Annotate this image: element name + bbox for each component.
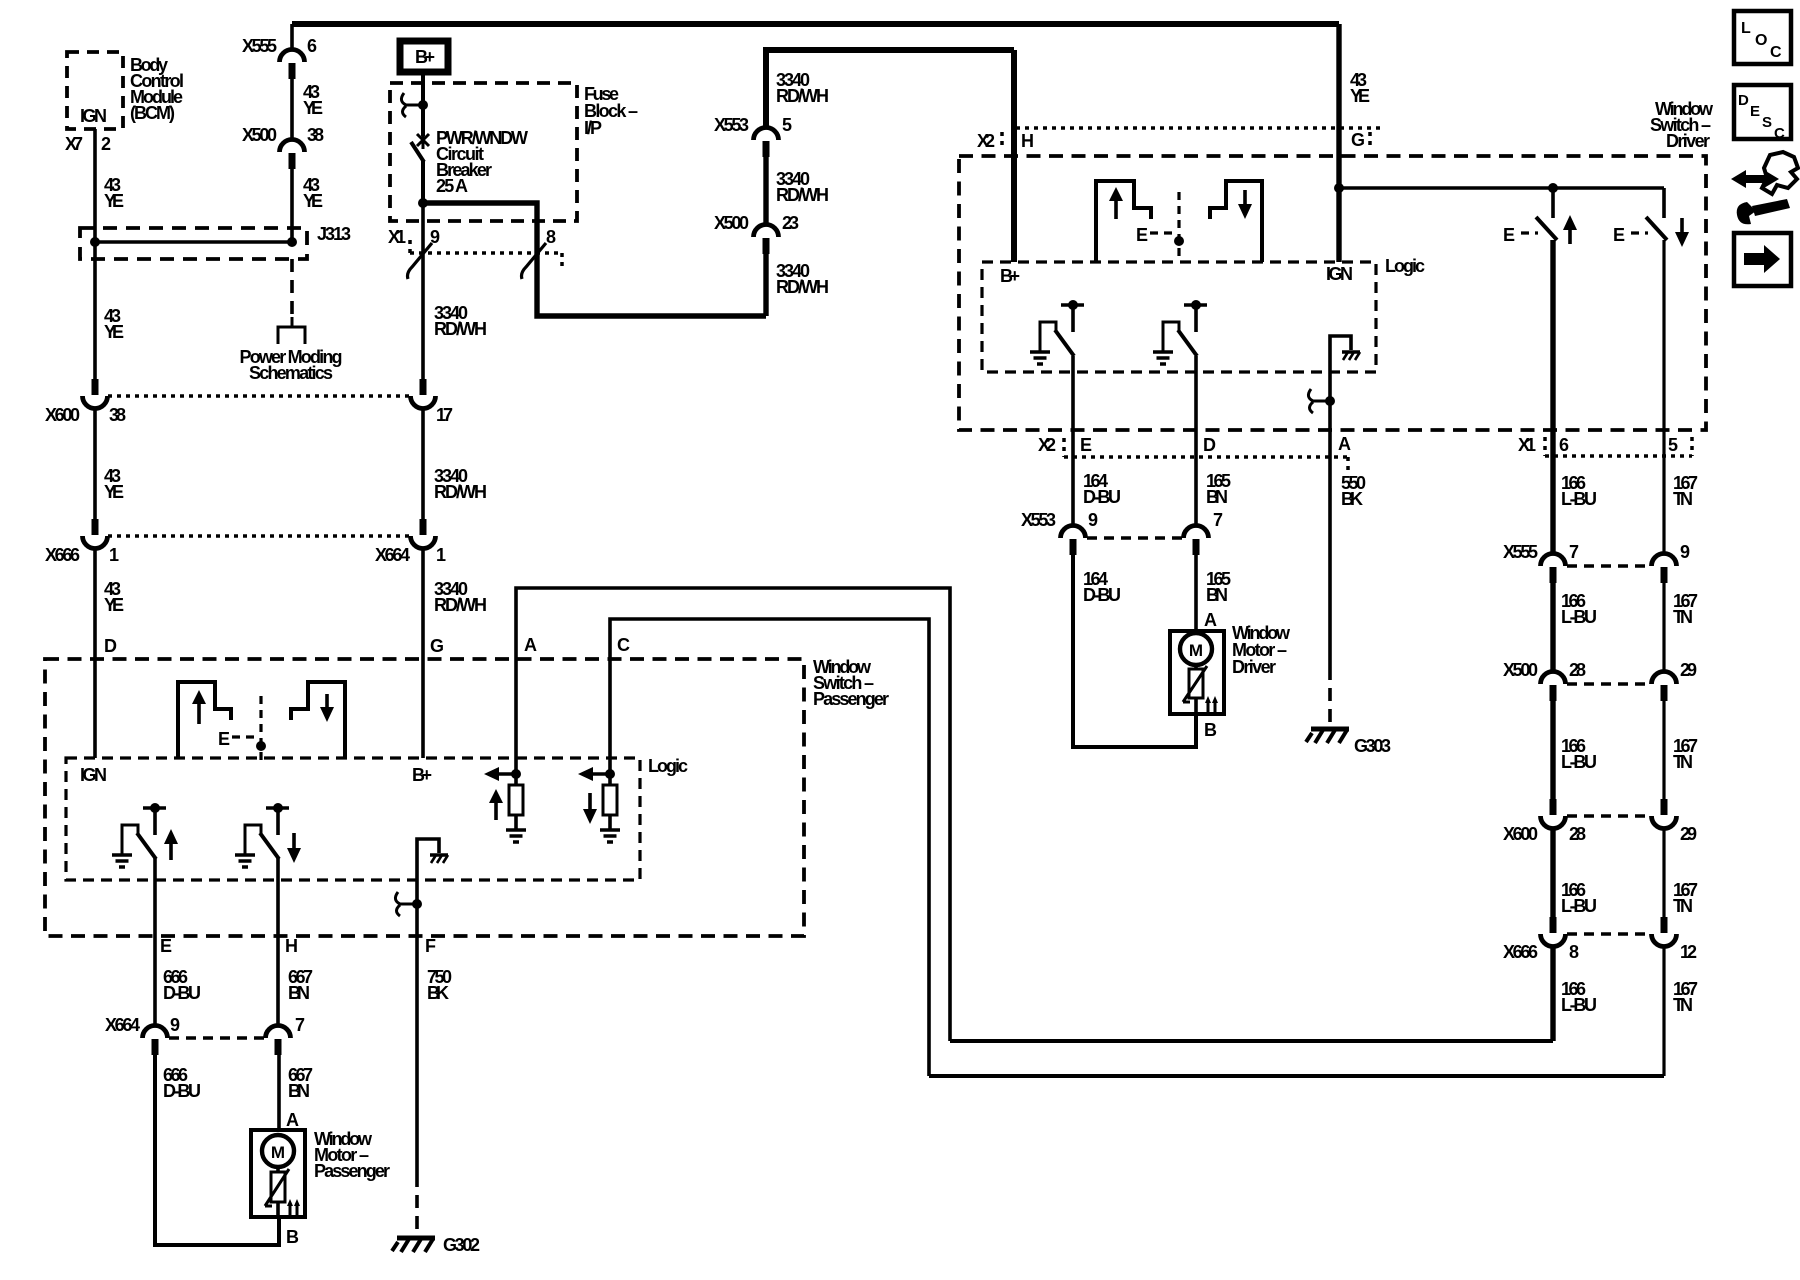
rocker paddle up (passenger)	[178, 682, 231, 758]
wire 667 BN from logic H to X664-7	[276, 858, 280, 1027]
svg-text:6: 6	[1559, 435, 1569, 455]
wire breaker to junction	[421, 160, 425, 203]
body control module BCM box	[67, 52, 123, 129]
dashed wire to power moding schematics	[290, 259, 294, 322]
resistor C branch	[608, 774, 612, 785]
svg-text:S: S	[1762, 114, 1772, 131]
svg-text:D-BU: D-BU	[163, 1081, 201, 1101]
resistor A branch	[514, 774, 518, 785]
svg-text:8: 8	[546, 227, 556, 247]
ground	[235, 855, 255, 867]
window switch driver box	[959, 156, 1706, 430]
svg-text:IGN: IGN	[80, 765, 107, 785]
svg-text:M: M	[1189, 641, 1203, 660]
switch down (driver window)	[1662, 188, 1666, 218]
svg-text:X500: X500	[714, 213, 749, 233]
svg-text:7: 7	[1213, 510, 1223, 530]
wire 43 YE X555-6 to X500-38	[290, 77, 294, 140]
svg-text:6: 6	[307, 36, 317, 56]
window motor passenger box	[251, 1130, 305, 1217]
connector X600-17 halves	[411, 379, 436, 409]
arrow up in paddle	[1114, 199, 1118, 219]
svg-text:X555: X555	[242, 36, 277, 56]
arrow down in paddle	[1243, 190, 1247, 206]
terminal leaf at X1-9	[408, 243, 433, 279]
wire 43 YE top bus from X555-6 to driver IGN drop	[292, 21, 1339, 27]
svg-text:B: B	[286, 1227, 299, 1247]
svg-text:E: E	[160, 936, 172, 956]
svg-text:A: A	[1338, 434, 1351, 454]
wire 166 L-BU run to passenger switch A	[950, 1039, 1553, 1043]
connector X600-29 halves	[1652, 799, 1677, 829]
terminal curl F pin	[395, 892, 417, 916]
svg-text:X600: X600	[1503, 824, 1538, 844]
wire 166 L-BU to X500-28	[1550, 582, 1555, 673]
icon wrench	[1737, 202, 1756, 224]
double up arrows	[290, 1205, 297, 1215]
junction dot C input	[605, 769, 615, 779]
svg-text:29: 29	[1680, 660, 1697, 680]
svg-text:L-BU: L-BU	[1561, 607, 1597, 627]
connector row dashed X500	[1567, 682, 1650, 686]
connector tick X1 right	[1690, 437, 1694, 456]
wire stub from top bus to X555-6	[290, 24, 294, 51]
connector tick X2 right	[1368, 132, 1372, 150]
svg-text:X1: X1	[388, 227, 406, 247]
connector tick X1 left	[1543, 437, 1547, 456]
circuit breaker PWR/WNDW 25A	[417, 131, 429, 149]
svg-text:BN: BN	[288, 1081, 310, 1101]
motor thermistor	[1194, 665, 1198, 669]
svg-text:BK: BK	[1341, 489, 1363, 509]
connector X500-38 halves	[280, 140, 305, 170]
junction dot at up switch	[1548, 183, 1558, 193]
splice J313 box	[80, 228, 307, 259]
connector row dashed X600	[1567, 814, 1650, 818]
connector X664-9 halves	[143, 1026, 168, 1056]
svg-text:2: 2	[101, 134, 111, 154]
chassis flag F pin (passenger)	[417, 839, 439, 904]
switch up (driver window)	[1551, 188, 1555, 218]
ground	[506, 830, 526, 842]
arrow down	[1680, 218, 1684, 234]
svg-text:28: 28	[1569, 660, 1586, 680]
window switch passenger box	[45, 659, 804, 936]
icon DESC box	[1734, 85, 1791, 139]
svg-text:G: G	[430, 636, 444, 656]
svg-text:A: A	[524, 635, 537, 655]
driver logic box	[982, 262, 1376, 372]
ground	[1153, 352, 1173, 364]
svg-text:8: 8	[1569, 942, 1579, 962]
arrow up	[1568, 228, 1572, 244]
wire 43 YE X600-38 to X666-1	[93, 408, 97, 522]
svg-text:X1: X1	[1518, 435, 1536, 455]
svg-text:TN: TN	[1673, 896, 1693, 916]
wire 164 D-BU from logic E to X553-9	[1071, 356, 1075, 527]
svg-text:(BCM): (BCM)	[130, 103, 175, 123]
wire 43 YE drop to driver logic IGN	[1336, 24, 1341, 262]
svg-text:12: 12	[1680, 942, 1697, 962]
switch to ground up (driver logic)	[1061, 303, 1084, 307]
svg-text:TN: TN	[1673, 995, 1693, 1015]
arrow down in paddle	[325, 694, 329, 709]
svg-text:YE: YE	[104, 322, 124, 342]
arrow down beside switch	[292, 833, 296, 851]
dashed wire to G302	[415, 1174, 419, 1233]
junction at right of J313	[287, 237, 297, 247]
svg-text:O: O	[1755, 32, 1767, 49]
svg-text:Driver: Driver	[1232, 657, 1276, 677]
wire 750 BK down	[415, 904, 419, 1174]
wire 167 TN to X666-12	[1662, 828, 1665, 919]
svg-text:D-BU: D-BU	[1083, 585, 1121, 605]
arrow up in paddle	[197, 702, 201, 724]
svg-text:TN: TN	[1673, 489, 1693, 509]
connector X500-28 halves	[1541, 672, 1566, 702]
connector row dotted X600	[108, 394, 410, 398]
svg-text:IGN: IGN	[80, 106, 107, 126]
svg-text:RD/WH: RD/WH	[434, 595, 487, 615]
svg-text:C: C	[617, 635, 630, 655]
svg-text:YE: YE	[104, 191, 124, 211]
connector row dotted X1	[410, 251, 562, 255]
svg-text:23: 23	[782, 213, 799, 233]
connector X555-9 halves	[1652, 554, 1677, 584]
svg-text:X500: X500	[1503, 660, 1538, 680]
svg-text:29: 29	[1680, 824, 1697, 844]
wire 167 TN run to passenger switch C	[929, 1074, 1664, 1078]
svg-text:RD/WH: RD/WH	[776, 277, 829, 297]
svg-text:9: 9	[1088, 510, 1098, 530]
svg-text:G303: G303	[1354, 736, 1391, 756]
svg-text:BN: BN	[288, 983, 310, 1003]
wire 166 L-BU to X600-28	[1550, 700, 1555, 801]
svg-text:YE: YE	[104, 482, 124, 502]
connector X664-7 halves	[266, 1026, 291, 1056]
junction at left of J313	[90, 237, 100, 247]
connector X664-1 halves	[411, 519, 436, 549]
rocker paddle up	[1096, 181, 1151, 262]
svg-text:L: L	[1741, 20, 1751, 37]
svg-text:YE: YE	[303, 191, 323, 211]
connector row dashed X553	[1087, 536, 1182, 540]
passenger logic box	[66, 758, 640, 880]
svg-text:D: D	[1203, 435, 1216, 455]
svg-text:L-BU: L-BU	[1561, 896, 1597, 916]
connector row dashed X664	[169, 1036, 264, 1040]
arrow up beside switch	[169, 842, 173, 860]
connector X500-23 halves	[754, 225, 779, 255]
svg-text:C: C	[1774, 125, 1785, 142]
svg-text:L-BU: L-BU	[1561, 752, 1597, 772]
svg-text:X553: X553	[714, 115, 749, 135]
ground G303	[1306, 729, 1349, 743]
wire 43 YE J313 down to X600-38	[93, 242, 97, 382]
rocker paddle down (passenger)	[291, 682, 345, 758]
svg-text:RD/WH: RD/WH	[434, 319, 487, 339]
svg-text:28: 28	[1569, 824, 1586, 844]
connector X600-28 halves	[1541, 799, 1566, 829]
svg-text:B: B	[1204, 720, 1217, 740]
connector row dotted X1 6 5	[1545, 454, 1692, 458]
wire 166 L-BU to X666-8	[1550, 828, 1555, 919]
svg-text:E: E	[1613, 225, 1625, 245]
connector X666-12 halves	[1652, 917, 1677, 947]
svg-text:YE: YE	[303, 98, 323, 118]
svg-text:YE: YE	[104, 595, 124, 615]
svg-text:5: 5	[782, 115, 792, 135]
svg-text:1: 1	[436, 545, 446, 565]
connector X553-9 halves	[1061, 526, 1086, 556]
wire 43 YE X666-1 down to passenger IGN pin D	[93, 548, 97, 758]
connector tick X1 left	[408, 240, 412, 253]
svg-text:B+: B+	[412, 765, 432, 785]
svg-text:D: D	[1738, 92, 1749, 109]
svg-text:E: E	[1080, 435, 1092, 455]
connector X600-38 halves	[83, 379, 108, 409]
ground	[112, 855, 132, 867]
wire 3340 RD/WH branch to X1-8	[423, 203, 766, 316]
svg-text:YE: YE	[1350, 86, 1370, 106]
svg-text:X664: X664	[105, 1015, 140, 1035]
svg-text:D-BU: D-BU	[163, 983, 201, 1003]
terminal curl at breaker feed	[401, 93, 423, 117]
svg-text:E: E	[1750, 103, 1760, 120]
svg-text:25 A: 25 A	[436, 176, 468, 196]
svg-text:L-BU: L-BU	[1561, 489, 1597, 509]
wire 3340 RD/WH drop to driver logic B+	[1011, 50, 1017, 262]
svg-text:E: E	[218, 729, 230, 749]
fuse block I/P box	[390, 83, 577, 221]
connector X553-5 halves	[754, 128, 779, 158]
arrow left A input	[497, 772, 516, 776]
svg-text:BN: BN	[1206, 585, 1228, 605]
svg-text:X666: X666	[1503, 942, 1538, 962]
terminal leaf at X1-8	[522, 243, 547, 279]
wire B+ into breaker	[421, 74, 425, 136]
connector row dashed X555	[1567, 564, 1650, 568]
motor M circle	[1180, 633, 1212, 665]
svg-text:D: D	[104, 636, 117, 656]
connector tick X2 right	[1346, 457, 1350, 474]
connector X555-7 halves	[1541, 554, 1566, 584]
svg-text:H: H	[285, 936, 298, 956]
connector tick X1 right	[560, 253, 564, 267]
svg-text:X2: X2	[1038, 435, 1056, 455]
svg-text:L-BU: L-BU	[1561, 995, 1597, 1015]
wire 3340 RD/WH X664-1 down to passenger B+ pin G	[421, 548, 425, 758]
svg-text:1: 1	[109, 545, 119, 565]
ground G302	[392, 1238, 435, 1252]
wire 164 D-BU X553-9 to motor B loop	[1073, 554, 1196, 747]
motor M circle	[262, 1135, 294, 1167]
switch to ground down (passenger logic)	[266, 806, 289, 810]
arrow down beside resistor	[588, 793, 592, 812]
dashed wire to G303	[1328, 667, 1332, 725]
svg-text:X555: X555	[1503, 542, 1538, 562]
svg-text:Passenger: Passenger	[813, 689, 889, 709]
svg-text:17: 17	[436, 405, 453, 425]
svg-text:X2: X2	[977, 131, 995, 151]
svg-text:9: 9	[1680, 542, 1690, 562]
terminal curl A pin	[1308, 389, 1330, 413]
motor thermistor	[276, 1166, 280, 1172]
connector row dashed X666	[1567, 932, 1650, 936]
wire 667 BN X664-7 to motor A	[277, 1054, 281, 1130]
connector row dotted X2 H G	[1016, 126, 1385, 130]
svg-text:RD/WH: RD/WH	[776, 86, 829, 106]
svg-text:F: F	[425, 936, 436, 956]
wire 3340 RD/WH riser to X500-23	[763, 252, 768, 316]
svg-text:M: M	[271, 1143, 285, 1162]
svg-text:IGN: IGN	[1326, 264, 1353, 284]
arrow left C input	[591, 772, 610, 776]
svg-text:E: E	[1503, 225, 1515, 245]
svg-text:TN: TN	[1673, 752, 1693, 772]
wire IGN feed to window switches	[1339, 186, 1664, 190]
wire 167 TN to X600-29	[1662, 700, 1665, 801]
connector X666-8 halves	[1541, 917, 1566, 947]
svg-text:5: 5	[1668, 435, 1678, 455]
svg-text:X600: X600	[45, 405, 80, 425]
icon right arrow box	[1734, 233, 1791, 286]
icon double arrow with pointer	[1731, 170, 1779, 188]
svg-text:B+: B+	[1000, 266, 1020, 286]
svg-text:A: A	[1204, 610, 1217, 630]
svg-text:B+: B+	[415, 47, 435, 67]
svg-text:TN: TN	[1673, 607, 1693, 627]
svg-text:X7: X7	[65, 134, 83, 154]
svg-text:X553: X553	[1021, 510, 1056, 530]
junction dot A input	[511, 769, 521, 779]
ground	[1030, 352, 1050, 364]
wire 666 D-BU from logic E to X664-9	[153, 858, 157, 1027]
chassis flag A pin (driver)	[1330, 336, 1351, 401]
ground	[600, 830, 620, 842]
junction dot IGN branch	[1334, 183, 1344, 193]
svg-text:X664: X664	[375, 545, 410, 565]
svg-text:G: G	[1351, 130, 1365, 150]
wire 3340 RD/WH X500-23 to X553-5	[763, 155, 768, 226]
svg-text:I/P: I/P	[584, 118, 602, 138]
arrow up beside resistor	[494, 801, 498, 820]
wire 43 YE from BCM X7-2 down to J313	[93, 129, 97, 242]
battery B+ symbol box	[400, 41, 448, 72]
wire 166 L-BU X666-8 down	[1550, 946, 1555, 1041]
svg-text:RD/WH: RD/WH	[434, 482, 487, 502]
rocker paddle down	[1210, 181, 1262, 262]
connector tick X2 left	[1000, 132, 1004, 150]
connector tick X2 left	[1062, 438, 1066, 457]
junction dot breaker output	[418, 198, 428, 208]
connector X553-7 halves	[1184, 526, 1209, 556]
wire 167 TN to X500-29	[1662, 582, 1665, 673]
svg-text:7: 7	[295, 1015, 305, 1035]
wire 43 YE X500-38 down to J313	[290, 167, 294, 242]
connector row dotted X2 E D A	[1064, 455, 1352, 459]
svg-text:BN: BN	[1206, 487, 1228, 507]
svg-text:X500: X500	[242, 125, 277, 145]
svg-text:J313: J313	[317, 224, 351, 244]
svg-text:7: 7	[1569, 542, 1579, 562]
wire 165 BN X553-7 to motor A	[1194, 554, 1198, 631]
connector row dotted X666-X664	[108, 534, 410, 538]
switch to ground down (driver logic)	[1184, 303, 1207, 307]
wire 3340 RD/WH from X1-9 down	[421, 203, 425, 382]
svg-text:Driver: Driver	[1666, 131, 1710, 151]
svg-text:BK: BK	[427, 983, 449, 1003]
svg-text:C: C	[1770, 44, 1782, 61]
svg-text:A: A	[286, 1110, 299, 1130]
wire 550 BK down	[1328, 401, 1332, 667]
wire 166 L-BU from up switch to X555-7	[1550, 240, 1555, 555]
svg-text:9: 9	[170, 1015, 180, 1035]
wire 3340 RD/WH bus to driver B+ drop	[766, 50, 1014, 129]
svg-text:X666: X666	[45, 545, 80, 565]
connector X666-1 halves	[83, 519, 108, 549]
svg-text:G302: G302	[443, 1235, 480, 1255]
window motor driver box	[1170, 631, 1224, 714]
svg-text:38: 38	[109, 405, 126, 425]
wire 167 TN from down switch to X555-9	[1662, 240, 1665, 555]
svg-text:H: H	[1021, 131, 1034, 151]
connector X555-6 halves	[280, 50, 305, 80]
wire splice inside J313	[95, 240, 292, 244]
switch to ground up (passenger logic)	[143, 806, 166, 810]
wire 3340 RD/WH X600-17 to X664-1	[421, 408, 425, 522]
svg-text:RD/WH: RD/WH	[776, 185, 829, 205]
svg-text:Logic: Logic	[648, 756, 688, 776]
junction dot at curl	[418, 100, 428, 110]
svg-text:38: 38	[307, 125, 324, 145]
svg-text:Passenger: Passenger	[314, 1161, 390, 1181]
double up arrows	[1208, 702, 1215, 712]
connector X500-29 halves	[1652, 672, 1677, 702]
svg-text:Logic: Logic	[1385, 256, 1425, 276]
wire 666 D-BU X664-9 to motor B loop	[155, 1054, 279, 1245]
wire 167 TN X666-12 down	[1662, 946, 1665, 1076]
svg-text:Schematics: Schematics	[249, 363, 333, 383]
icon LOC box	[1734, 11, 1791, 64]
off-page bracket power moding	[278, 317, 305, 344]
svg-text:E: E	[1136, 225, 1148, 245]
svg-text:D-BU: D-BU	[1083, 487, 1121, 507]
wire 165 BN from logic D to X553-7	[1194, 356, 1198, 527]
